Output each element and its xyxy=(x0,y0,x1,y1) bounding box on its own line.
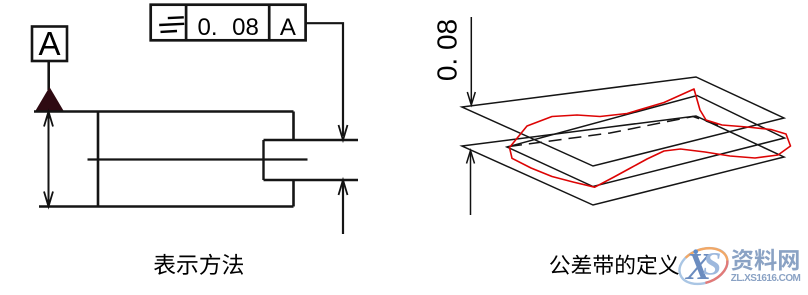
actual surface (red wavy) xyxy=(510,89,791,187)
slot dimension arrows xyxy=(339,125,348,140)
lower tolerance plane xyxy=(462,116,784,205)
slot xyxy=(264,140,359,180)
upper tolerance plane xyxy=(462,77,784,166)
datum triangle (filled) xyxy=(35,87,64,112)
datum leader stem xyxy=(47,61,50,90)
caption 公差带的定义 xyxy=(550,255,679,275)
svg-text:0. 08: 0. 08 xyxy=(198,14,259,41)
svg-text:ZL.XS1616.COM: ZL.XS1616.COM xyxy=(731,273,801,284)
dashed center line xyxy=(509,117,723,147)
left dimension line xyxy=(48,112,50,207)
caption 表示方法 xyxy=(154,254,243,275)
watermark logo ellipse xyxy=(674,242,732,291)
part outline xyxy=(34,112,294,207)
svg-text:0. 08: 0. 08 xyxy=(431,19,462,81)
symmetry symbol xyxy=(159,17,184,32)
watermark 资料网 xyxy=(732,249,799,271)
svg-text:A: A xyxy=(38,25,60,62)
datum label box A xyxy=(32,27,67,62)
feature control frame xyxy=(151,5,306,41)
median plane (tilted) xyxy=(507,96,785,187)
leader line xyxy=(306,23,343,136)
watermark i dot xyxy=(693,249,698,254)
svg-text:A: A xyxy=(280,14,296,41)
center line xyxy=(88,158,308,160)
tolerance dimension arrows xyxy=(470,17,473,215)
svg-text:S: S xyxy=(703,247,721,283)
